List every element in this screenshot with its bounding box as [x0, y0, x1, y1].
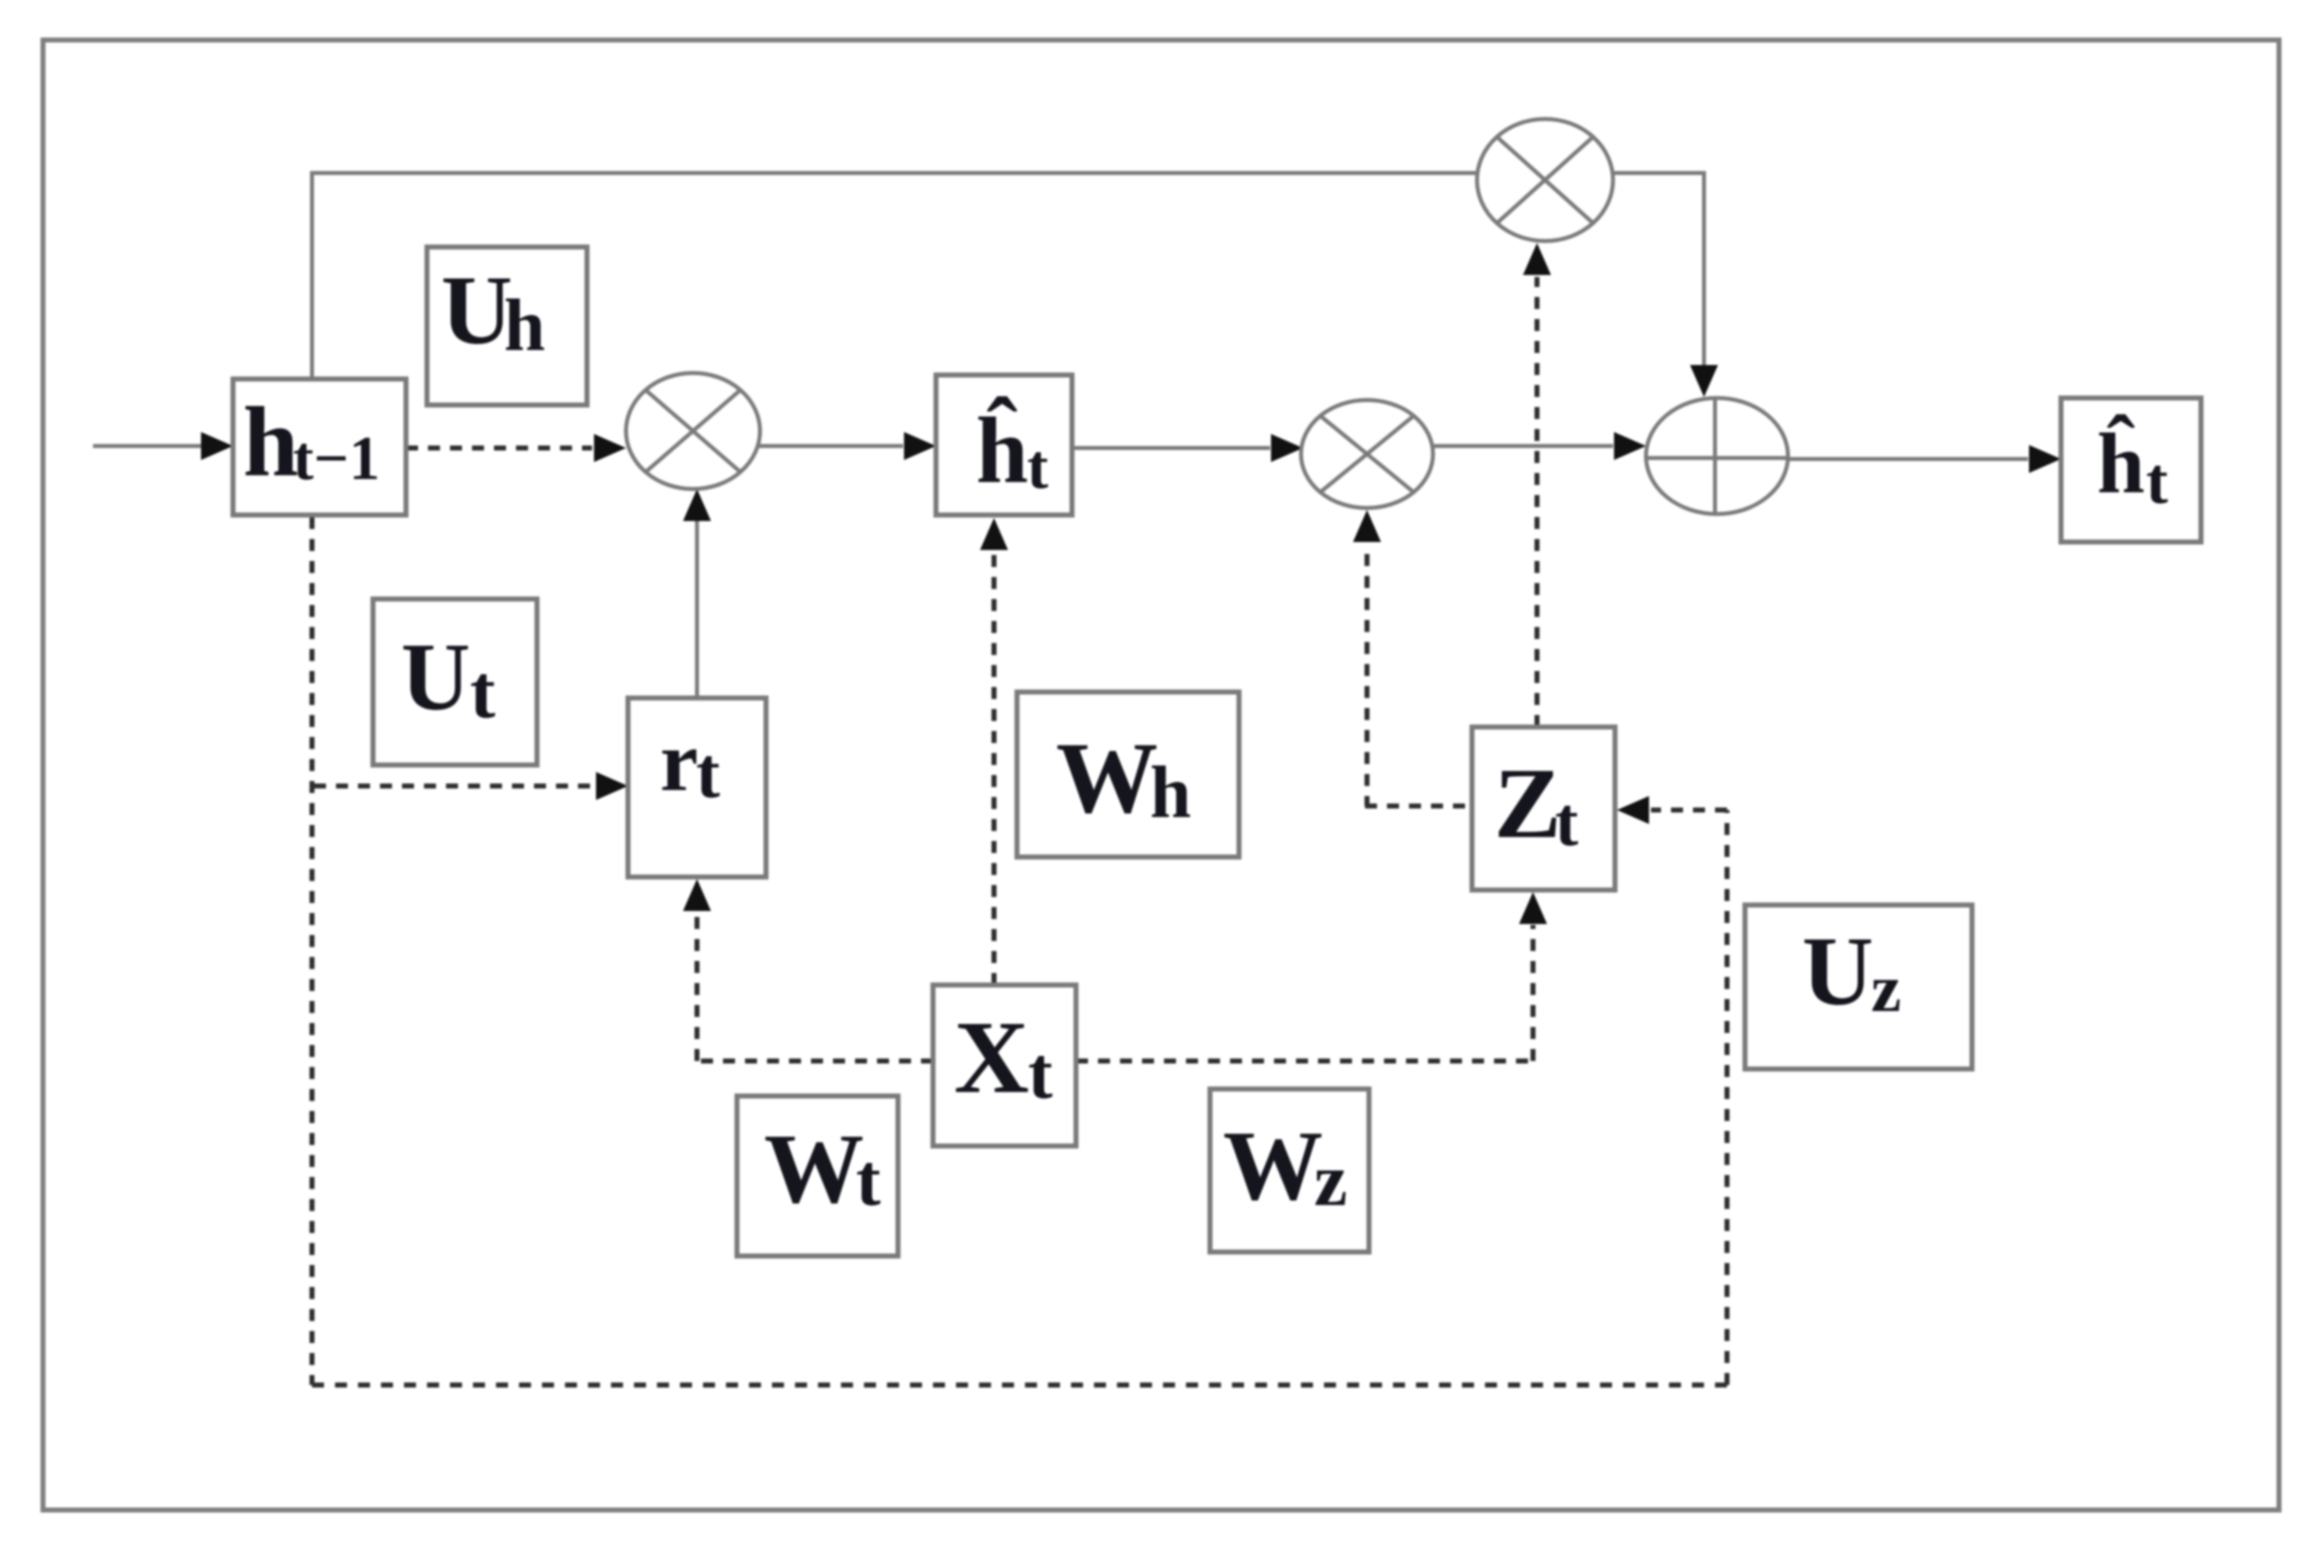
box W_z [1210, 1089, 1369, 1252]
svg-text:t: t [1555, 784, 1578, 861]
multiplier M2 [1301, 400, 1433, 508]
svg-text:t: t [696, 733, 720, 813]
dashed h_t-1 to M1 [406, 446, 592, 451]
svg-text:h: h [504, 285, 545, 367]
box W_t [737, 1096, 898, 1256]
svg-text:t: t [1027, 431, 1049, 502]
wire feedback top horizontal [310, 171, 1479, 175]
svg-text:W: W [1223, 1110, 1323, 1221]
wire h-hat-mid to M2 [1072, 446, 1270, 450]
svg-text:h: h [243, 386, 299, 497]
svg-text:h: h [1150, 752, 1191, 834]
dashed M2 bottom vertical and corner to Z_t [1365, 554, 1370, 806]
svg-text:X: X [954, 1000, 1029, 1115]
svg-text:r: r [660, 713, 698, 809]
multiplier M3 top [1477, 119, 1613, 241]
svg-text:ĥ: ĥ [976, 397, 1028, 503]
svg-text:t: t [2146, 445, 2168, 518]
box X_t [933, 985, 1076, 1146]
svg-text:t: t [470, 650, 495, 734]
dashed h_t-1 bottom vertical [310, 517, 315, 1385]
svg-text:z: z [1871, 950, 1901, 1026]
svg-text:t−1: t−1 [293, 425, 380, 493]
dashed right vertical up [1725, 810, 1730, 1385]
dashed into Z_t right [1651, 808, 1727, 813]
box U_z [1745, 905, 1972, 1069]
wire corner down into adder [1702, 171, 1706, 368]
dashed to r_t left [314, 784, 594, 789]
svg-text:U: U [401, 623, 470, 730]
wire adder to h-hat-right [1788, 457, 2028, 461]
box W_h [1017, 692, 1239, 857]
multiplier M1 [626, 373, 760, 489]
wire M2 to adder [1431, 444, 1613, 448]
wire input arrow into h_t-1 [93, 444, 206, 448]
dashed up into Z_t bottom [1531, 925, 1536, 1061]
svg-text:W: W [1056, 722, 1158, 835]
box h-hat mid [936, 375, 1072, 515]
wire r_t up into M1 [695, 520, 699, 698]
wire M3 to corner [1611, 171, 1704, 175]
box h-hat right [2061, 398, 2201, 542]
dashed bottom horizontal [312, 1383, 1727, 1388]
svg-text:t: t [1028, 1033, 1053, 1115]
box U_t [373, 599, 537, 765]
box h_t-1 [233, 379, 406, 515]
wire feedback up from h_t-1 [310, 173, 314, 381]
dashed X_t right horizontal [1076, 1059, 1533, 1064]
svg-text:t: t [856, 1140, 881, 1222]
adder A1 [1646, 398, 1788, 514]
svg-text:W: W [764, 1113, 864, 1224]
dashed up into r_t bottom [695, 911, 700, 1061]
box U_h [427, 247, 587, 405]
box r_t [628, 698, 766, 877]
dashed X_t up to h-hat-mid [992, 552, 997, 985]
svg-text:ĥ: ĥ [2097, 413, 2145, 511]
wire M1 to h-hat-mid [758, 444, 903, 448]
svg-text:Z: Z [1494, 747, 1561, 859]
dashed X_t left horizontal [697, 1059, 933, 1064]
box Z_t [1472, 727, 1615, 890]
svg-text:U: U [441, 256, 513, 365]
svg-text:z: z [1314, 1139, 1347, 1222]
svg-text:U: U [1802, 917, 1874, 1026]
dashed Z_t top up to M3 [1535, 277, 1540, 727]
